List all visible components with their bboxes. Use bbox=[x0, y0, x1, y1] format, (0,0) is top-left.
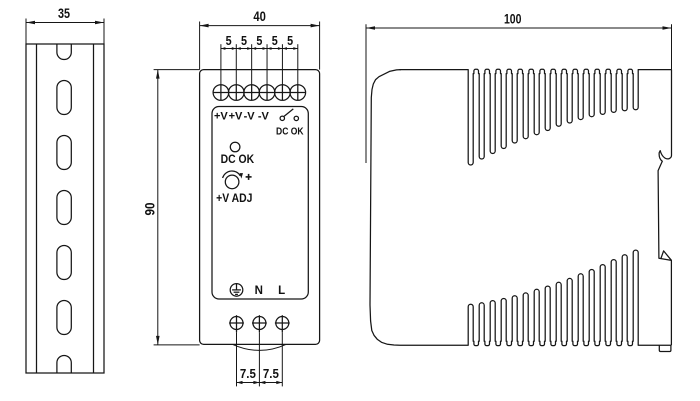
svg-text:L: L bbox=[278, 285, 285, 297]
svg-text:7.5: 7.5 bbox=[240, 367, 256, 381]
svg-text:+V: +V bbox=[214, 111, 228, 123]
svg-text:5: 5 bbox=[287, 33, 293, 48]
svg-text:100: 100 bbox=[504, 10, 522, 26]
svg-text:40: 40 bbox=[253, 8, 266, 24]
svg-text:-V: -V bbox=[244, 111, 256, 123]
svg-text:5: 5 bbox=[256, 33, 262, 48]
svg-text:35: 35 bbox=[58, 5, 70, 21]
svg-text:90: 90 bbox=[141, 202, 157, 215]
svg-text:7.5: 7.5 bbox=[263, 367, 279, 381]
svg-text:-V: -V bbox=[258, 111, 270, 123]
svg-text:5: 5 bbox=[272, 33, 278, 48]
svg-text:DC OK: DC OK bbox=[276, 126, 304, 138]
svg-text:N: N bbox=[255, 285, 263, 297]
svg-text:5: 5 bbox=[241, 33, 247, 48]
svg-text:5: 5 bbox=[226, 33, 232, 48]
svg-text:+V: +V bbox=[229, 111, 243, 123]
svg-text:DC OK: DC OK bbox=[221, 152, 255, 166]
svg-text:+V ADJ: +V ADJ bbox=[216, 191, 252, 205]
